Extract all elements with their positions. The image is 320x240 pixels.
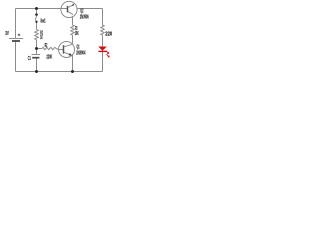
node A junction dot xyxy=(35,47,38,50)
transistor Q1 emitter arrowhead xyxy=(69,53,72,56)
battery plus sign xyxy=(18,34,21,37)
wire switch branch top xyxy=(36,9,38,14)
LED arrow 2 head xyxy=(107,55,109,57)
LED light arrow 2 xyxy=(107,54,109,57)
resistor 220 xyxy=(101,25,104,35)
wire right vertical to resistor xyxy=(102,9,104,26)
svg-text:Sw1: Sw1 xyxy=(40,18,45,24)
battery bottom plate xyxy=(12,40,20,42)
transistor Q2 upper diagonal emitter xyxy=(68,4,74,7)
capacitor C1 top plate xyxy=(32,54,41,56)
wire node A to R2 xyxy=(37,48,43,50)
wire Q1 emitter down to rail xyxy=(72,55,74,72)
resistor R1 1K xyxy=(35,30,39,40)
transistor Q1 emitter diagonal xyxy=(64,52,73,55)
capacitor C1 bottom plate xyxy=(32,57,39,59)
switch Sw1 lever xyxy=(35,15,37,21)
wire top rail right xyxy=(77,8,103,10)
resistor R3 10K xyxy=(71,25,74,35)
wire R3 top to Q2 xyxy=(72,16,74,25)
wire R1 to node A xyxy=(36,40,38,49)
svg-text:3V: 3V xyxy=(5,31,9,37)
LED light arrow 1 xyxy=(106,51,108,54)
wire resistor to LED xyxy=(102,35,104,46)
svg-text:220: 220 xyxy=(105,32,112,38)
switch Sw1 top contact dot xyxy=(35,13,38,16)
transistor Q1 collector diagonal xyxy=(64,44,73,47)
svg-text:R2: R2 xyxy=(45,43,48,49)
svg-text:220K: 220K xyxy=(46,55,52,61)
transistor Q1 circle xyxy=(59,42,75,58)
wire bottom rail xyxy=(16,71,103,73)
node junction dot bottom rail right xyxy=(71,70,74,73)
LED triangle xyxy=(98,47,107,51)
battery top plate xyxy=(9,38,23,40)
wire left vertical battery top xyxy=(15,9,17,39)
capacitor C1 bottom wire xyxy=(36,59,38,72)
transistor Q2 emitter arrowhead xyxy=(72,4,74,6)
svg-text:10K: 10K xyxy=(75,31,79,37)
transistor Q2 circle xyxy=(61,1,77,17)
wire Q1 collector up to R3 xyxy=(72,35,74,44)
switch Sw1 bottom contact dot xyxy=(35,21,37,23)
capacitor C1 top wire xyxy=(36,49,38,55)
svg-text:1K: 1K xyxy=(40,35,43,41)
svg-text:C1: C1 xyxy=(28,56,31,62)
wire left vertical battery bottom xyxy=(15,41,17,71)
resistor R2 220K xyxy=(42,47,56,49)
node junction dot bottom rail left xyxy=(35,70,38,73)
svg-text:2N3904: 2N3904 xyxy=(76,50,85,56)
wire LED to bottom rail xyxy=(102,52,104,72)
transistor Q2 base bar xyxy=(67,6,69,12)
svg-text:2N3906: 2N3906 xyxy=(80,15,89,21)
LED cathode bar xyxy=(98,50,106,52)
wire R2 to Q1 base xyxy=(56,49,58,50)
transistor Q1 base bar xyxy=(63,45,65,53)
wire top rail left xyxy=(16,8,68,10)
wire switch to R1 xyxy=(36,23,38,30)
transistor Q2 lower diagonal xyxy=(68,11,73,14)
transistor Q1 base lead xyxy=(59,49,64,51)
node junction dot top rail xyxy=(35,7,38,10)
LED arrow 1 head xyxy=(107,52,109,54)
